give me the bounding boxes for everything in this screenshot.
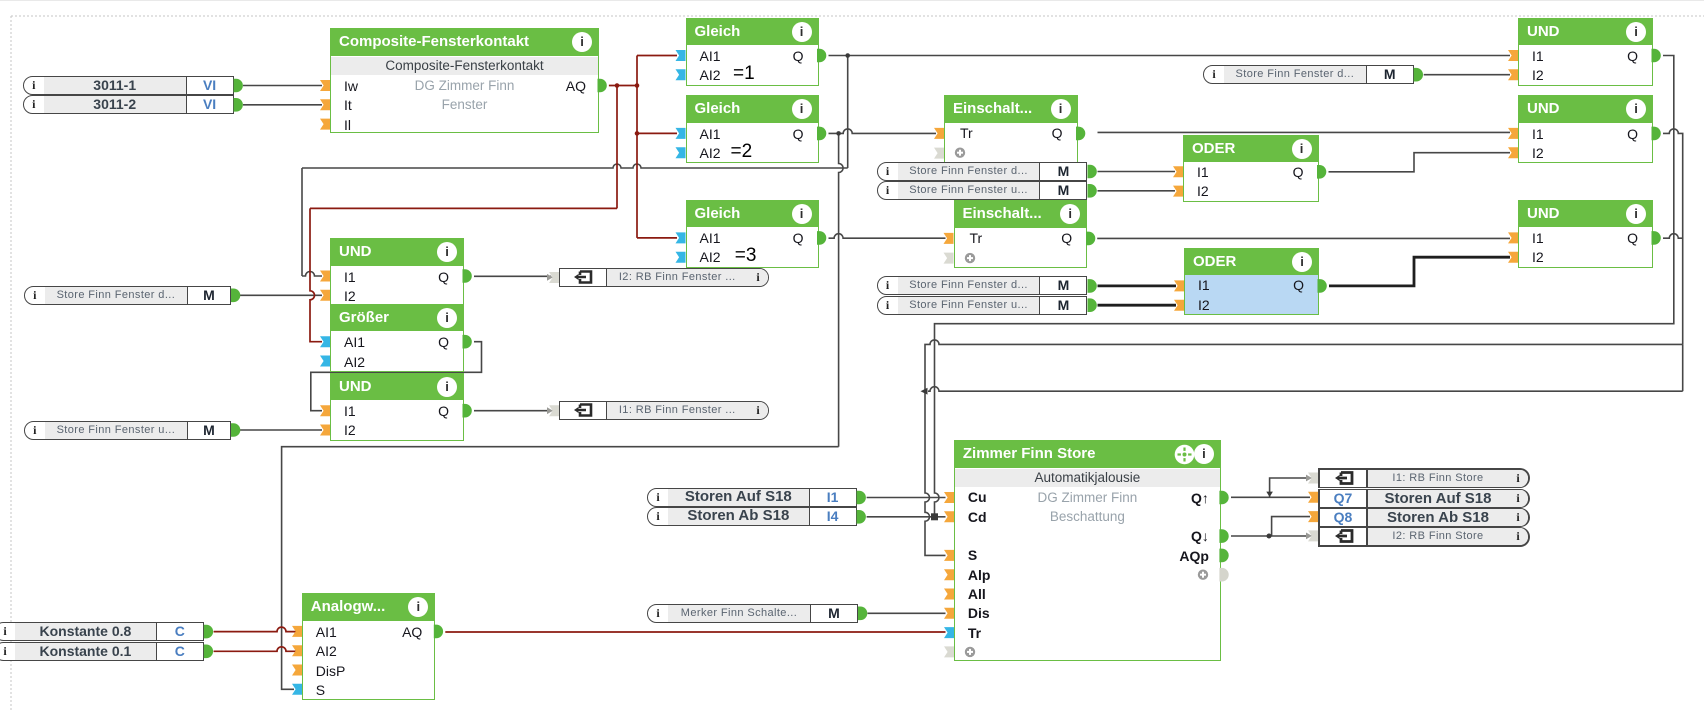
wire 3011-2 to It — [243, 104, 322, 106]
pin AQ Analogw — [434, 625, 443, 639]
pin DisP Analogw — [292, 665, 302, 676]
block Gleich B3 — [686, 200, 819, 268]
pin I1 UND-R1 — [1508, 50, 1518, 61]
pin Q7 capsule — [1308, 492, 1318, 503]
wire into UND-left I1 with hop over red — [302, 272, 322, 277]
pin Il — [320, 119, 330, 130]
pin Q Gleich3 — [817, 231, 826, 245]
pin AI1 Gleich2 — [676, 128, 686, 139]
icon plus Zimmer right — [1198, 570, 1208, 580]
pin Q Gleich1 — [817, 49, 826, 63]
input capsule Merker Finn Schalte... M — [647, 604, 858, 623]
wire top-right capsule to UND-right1 I2 — [1424, 74, 1510, 76]
wire horizontal to left with hops over red verticals — [302, 164, 848, 168]
pin Q-down Zimmer — [1219, 529, 1228, 543]
pin Q ODER2 — [1318, 279, 1327, 293]
block Groesser B12 — [330, 304, 464, 372]
wire red down to Groesser AI1 with jog — [310, 208, 322, 341]
input capsule 3011-2 VI — [23, 95, 234, 114]
output capsule Q8 Storen Ab S18 — [1318, 508, 1530, 527]
pin I2 UND-R3 — [1508, 252, 1518, 263]
wire Einschalt1 Q to UND-right2 I1 — [1098, 131, 1511, 133]
wire red Konstante 0.1 to AI2 with hop — [214, 647, 296, 651]
output capsule I2: RB Finn Store — [1318, 527, 1530, 546]
wire UND-right3 Q join vertical — [1663, 234, 1683, 238]
block UND B9 right — [1518, 95, 1653, 163]
page margin dashed line vertical — [10, 16, 12, 710]
input capsule Store Finn Fenster u... M (left) — [24, 421, 231, 440]
wire red to Gleich2 AI1 — [637, 132, 677, 134]
junction Gleich1-Q branch dot — [845, 53, 850, 58]
junction AQ-net dot 2 — [635, 83, 640, 88]
wire red branch down at 617 — [616, 86, 618, 209]
pin Cu — [944, 492, 954, 503]
pin flag capsule I2RB — [549, 272, 559, 283]
block UND B11 left — [330, 238, 464, 306]
wire down to UND-left I1 — [301, 168, 303, 276]
pin I2 UND-L1 — [320, 290, 330, 301]
pin AQp Zimmer — [1219, 549, 1228, 563]
pin Q UND-R1 — [1652, 49, 1661, 63]
pin flag capsule I2RBStore — [1308, 530, 1318, 541]
pin Alp — [944, 569, 954, 580]
wire Store Finn Fenster d to UND-left I2 — [240, 294, 322, 296]
wire branch up to Q8 capsule — [1272, 517, 1310, 536]
nub capsule StorenAb — [857, 510, 866, 524]
block ODER B6 — [1183, 135, 1319, 202]
wire thick capsule pair2b to ODER2 I2 — [1098, 304, 1177, 307]
wire red to left — [310, 207, 617, 209]
pin Dis — [944, 608, 954, 619]
wire long left to Zimmer S with hops — [925, 340, 1683, 556]
output capsule I1: RB Finn Fenster ... — [559, 401, 769, 420]
icon plus E2 — [965, 253, 975, 263]
wire Groesser Q loop to UND-left2 I1 — [311, 342, 482, 411]
icon plus E1 — [955, 148, 965, 158]
wire Gleich1 Q branch down — [847, 56, 849, 169]
pin AI1 Gleich3 — [676, 232, 686, 243]
icon plus Zimmer bottom-left — [965, 647, 975, 657]
pin Q-up Zimmer — [1219, 491, 1228, 505]
input capsule Store Finn Fenster d... M (mid pair1) — [877, 162, 1088, 181]
pin I1 ODER2 — [1174, 280, 1184, 291]
junction arrow left at S-net — [921, 388, 928, 395]
pin Cd — [944, 511, 954, 522]
pin I2 UND-R2 — [1508, 147, 1518, 158]
pin Q UND-R3 — [1652, 231, 1661, 245]
pin S Analogw — [292, 684, 302, 695]
pin AI1 Analogw — [292, 626, 302, 637]
wire Gleich2 Q branch down with hop — [839, 133, 844, 446]
wire branch up to flag capsule row1 — [1270, 478, 1310, 497]
pin Q UND-R2 — [1652, 127, 1661, 141]
pin I2 UND-R1 — [1508, 69, 1518, 80]
input capsule Storen Ab S18 I4 — [647, 507, 857, 526]
wire red Analogw AQ to Zimmer Tr — [445, 631, 945, 633]
input capsule Store Finn Fenster u... M (mid pair2) — [877, 296, 1088, 315]
wire UND-right1 Q down-left to Cd junction — [935, 56, 1674, 517]
pin Q Groesser — [463, 335, 472, 349]
input capsule Store Finn Fenster d... M (left) — [24, 286, 231, 305]
pin All — [944, 589, 954, 600]
input capsule Konstante 0.1 C — [0, 642, 204, 661]
wire red Konstante 0.8 to AI1 with hop — [214, 627, 296, 632]
pin Q E2 — [1086, 232, 1095, 246]
pin I1 UND-L1 — [320, 271, 330, 282]
wire Storen Auf S18 to Cu with hops — [867, 497, 946, 499]
pin I2 ODER1 — [1173, 186, 1183, 197]
top hairline — [0, 0, 1704, 2]
pin Q UND-L1 — [463, 269, 472, 283]
input capsule Konstante 0.8 C — [0, 622, 204, 641]
wire red Composite AQ out — [609, 85, 637, 87]
wire red to Gleich1 AI1 — [637, 55, 677, 57]
pin I1 UND-R3 — [1508, 232, 1518, 243]
junction Gleich2-Q branch dot — [836, 131, 841, 136]
wire red vertical at 637 — [636, 56, 638, 238]
wire 3011-1 to Iw — [243, 85, 322, 87]
pin disabled Zimmer — [944, 646, 954, 657]
nub capsule pair1b — [1088, 184, 1097, 198]
pin disabled E2 — [944, 253, 954, 264]
wire thick capsule pair2a to ODER2 I1 — [1098, 284, 1177, 287]
output capsule I2: RB Finn Fenster ... — [559, 268, 769, 287]
pin S Zimmer — [944, 550, 954, 561]
pin AI1 Gleich1 — [676, 50, 686, 61]
pin Q UND-L2 — [463, 404, 472, 418]
junction AQ-net dot 3 — [635, 131, 640, 136]
pin Tr Zimmer — [944, 627, 954, 638]
pin disabled nub Zimmer right — [1219, 568, 1228, 582]
nub capsule pair2a — [1088, 279, 1097, 293]
pin Tr E2 — [944, 233, 954, 244]
pin AI2 Gleich3 — [676, 252, 686, 263]
pin Q ODER1 — [1317, 165, 1326, 179]
wire lower horizontal to arrow junction — [1682, 344, 1684, 391]
junction AQ-net dot 1 — [615, 83, 620, 88]
pin AI1 Groesser — [320, 336, 330, 347]
wire long to Analogw S — [282, 447, 839, 690]
wire UND-right2 Q with hop then down — [1663, 129, 1683, 345]
pin flag capsule I1RBStore — [1308, 473, 1318, 484]
entry arrows at gray flags — [547, 274, 553, 281]
icon crosshair Zimmer header — [1175, 445, 1195, 465]
nub capsule 3011-2 — [234, 98, 243, 112]
pin disabled E1 — [934, 148, 944, 159]
wire capsule pair1b to ODER1 I2 — [1098, 190, 1176, 192]
block UND B10 right — [1518, 200, 1653, 268]
junction Q-down branch dot — [1267, 534, 1272, 539]
wire UND-left1 Q to output capsule — [474, 275, 551, 277]
nub capsule topright — [1414, 68, 1423, 82]
input capsule Store Finn Fenster u... M (mid pair1) — [877, 181, 1088, 200]
pin I1 UND-R2 — [1508, 128, 1518, 139]
pin I2 UND-L2 — [320, 425, 330, 436]
block UND B13 left lower — [330, 373, 464, 441]
pin AQ Composite — [598, 79, 607, 93]
block Zimmer Finn Store (Automatikjalousie) B15 — [954, 440, 1221, 661]
pin Q E1 — [1076, 127, 1085, 141]
wire Einschalt2 Q to UND-right3 I1 — [1097, 237, 1510, 239]
block Einschaltverzoegerung B4 — [944, 95, 1078, 163]
wire red to Gleich3 AI1 — [637, 237, 677, 239]
pin AI2 Analogw — [292, 645, 302, 656]
pin flag capsule I1RB — [549, 405, 559, 416]
wire Q-up to Q7 capsule — [1231, 496, 1310, 498]
wire Gleich2 Q to Einschalt1 Tr with hop — [829, 129, 937, 134]
block Gleich B1 — [686, 18, 819, 86]
wire thick ODER2 Q to UND-right3 I2 — [1329, 257, 1510, 286]
nub capsule StoreU — [231, 423, 240, 437]
page margin dashed line horizontal — [11, 15, 1704, 17]
block Gleich B2 — [686, 95, 819, 163]
pin AI2 Gleich2 — [676, 147, 686, 158]
nub capsule StoreD — [231, 289, 240, 303]
pin AI2 Gleich1 — [676, 69, 686, 80]
input capsule Store Finn Fenster d... M (top right) — [1203, 65, 1414, 84]
input capsule Store Finn Fenster d... M (mid pair2) — [877, 276, 1088, 295]
pin Q Gleich2 — [817, 127, 826, 141]
pin I1 UND-L2 — [320, 405, 330, 416]
block UND B8 top-right — [1518, 18, 1653, 86]
pin It — [320, 99, 330, 110]
input capsule Storen Auf S18 I1 — [647, 488, 857, 507]
junction arrow down at Q-up branch — [1266, 492, 1273, 497]
block Composite-Fensterkontakt U1 — [330, 28, 599, 133]
wire Storen Ab S18 to Cd with hop — [867, 516, 946, 518]
wire Gleich1 Q to UND-right1 I1 — [829, 55, 1511, 57]
block Analogwahlschalter B14 — [302, 593, 436, 700]
wire Q-down to row4 capsule — [1231, 535, 1310, 537]
wire capsule pair1a to ODER1 I1 — [1098, 171, 1176, 173]
nub capsule K08 — [204, 625, 213, 639]
block Einschaltverzoegerung B5 — [954, 200, 1088, 268]
wire Gleich3 Q to Einschalt2 Tr with hop — [829, 234, 946, 238]
nub capsule StorenAuf — [857, 491, 866, 505]
nub capsule 3011-1 — [234, 79, 243, 93]
junction Cd-net square dot — [931, 513, 938, 520]
pin Q8 capsule — [1308, 511, 1318, 522]
nub capsule Merker — [858, 607, 867, 621]
pin Tr E1 — [934, 128, 944, 139]
pin AI2 Groesser — [320, 356, 330, 367]
nub capsule K01 — [204, 645, 213, 659]
input capsule 3011-1 VI — [23, 76, 234, 95]
pin I2 ODER2 — [1174, 300, 1184, 311]
output capsule I1: RB Finn Store — [1318, 468, 1530, 487]
pin Iw — [320, 80, 330, 91]
wire Merker to Dis — [868, 612, 946, 614]
output capsule Q7 Storen Auf S18 — [1318, 489, 1530, 508]
block ODER B7 highlighted — [1184, 248, 1319, 315]
pin I1 ODER1 — [1173, 166, 1183, 177]
wire ODER1 Q to UND-right2 I2 — [1329, 153, 1511, 172]
wire UND-left2 Q to output capsule — [474, 410, 551, 412]
nub capsule pair1a — [1088, 165, 1097, 179]
nub capsule pair2b — [1088, 298, 1097, 312]
wire Store Finn Fenster u to UND-left2 I2 — [240, 429, 322, 431]
